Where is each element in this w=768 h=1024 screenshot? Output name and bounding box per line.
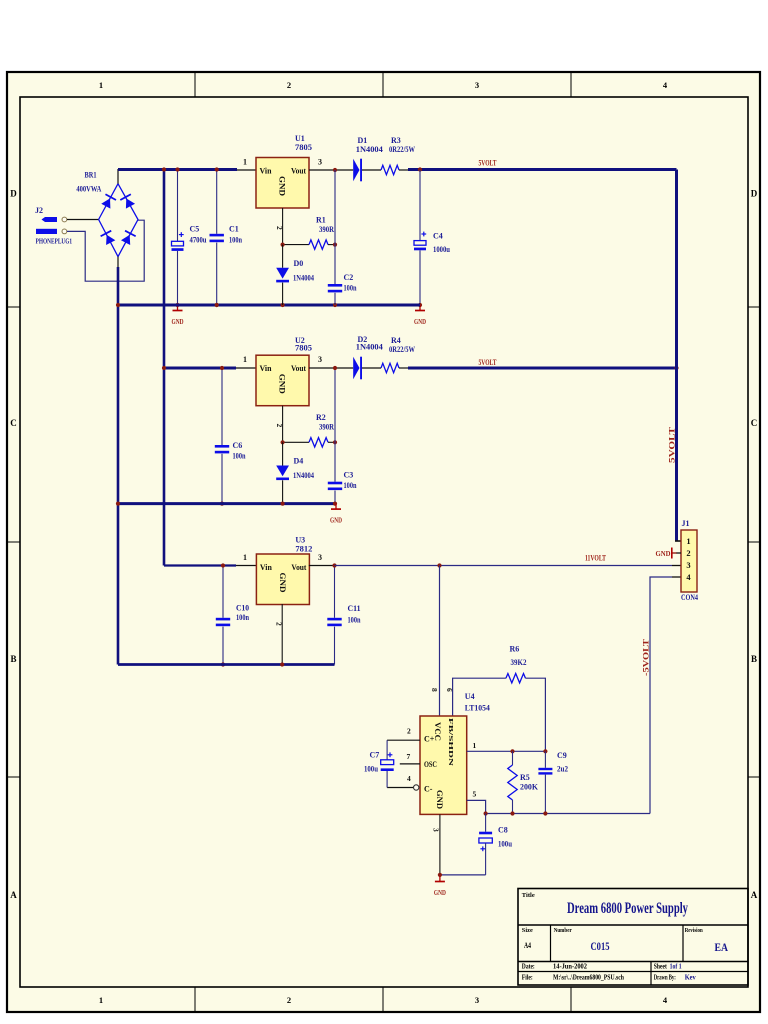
- svg-text:C015: C015: [591, 941, 610, 953]
- wire 11VOLT output: [335, 565, 673, 567]
- capacitor C7 100u: [386, 740, 388, 760]
- wire ground rail stage 2: [118, 502, 337, 505]
- ground symbol stage 2: [335, 504, 337, 509]
- wire U4 pin 6 to R6: [453, 678, 506, 716]
- svg-text:C4: C4: [433, 232, 443, 241]
- svg-text:C: C: [751, 418, 758, 428]
- svg-text:Sheet: Sheet: [654, 964, 668, 971]
- svg-text:C1: C1: [229, 225, 239, 234]
- svg-text:Vin: Vin: [260, 563, 273, 572]
- U2 pin 3 wire: [309, 367, 353, 369]
- ground symbol at C5: [177, 305, 179, 310]
- svg-text:C: C: [10, 418, 17, 428]
- title block frame: [518, 889, 748, 986]
- svg-text:Revision: Revision: [685, 927, 703, 934]
- svg-text:39K2: 39K2: [511, 658, 527, 667]
- svg-text:VCC: VCC: [433, 722, 442, 741]
- svg-text:Number: Number: [554, 927, 572, 934]
- svg-text:C5: C5: [190, 225, 200, 234]
- capacitor C3: [334, 368, 336, 482]
- svg-text:100u: 100u: [364, 765, 378, 774]
- svg-text:2: 2: [275, 622, 284, 626]
- capacitor C5: [177, 170, 179, 242]
- svg-text:Drawn By:: Drawn By:: [654, 975, 676, 982]
- svg-text:200K: 200K: [520, 783, 539, 792]
- svg-text:100n: 100n: [236, 613, 249, 622]
- svg-text:Vout: Vout: [291, 364, 306, 373]
- svg-text:7812: 7812: [295, 545, 312, 554]
- svg-text:11VOLT: 11VOLT: [585, 554, 606, 563]
- wire U4 ground link: [440, 874, 486, 876]
- bridge rectifier BR1 diamond: [99, 184, 138, 257]
- wire J2 sleeve loop: [67, 220, 144, 281]
- capacitor C8 100u: [485, 814, 487, 832]
- svg-text:GND: GND: [435, 790, 444, 809]
- svg-text:1of 1: 1of 1: [670, 964, 682, 971]
- svg-text:R3: R3: [391, 136, 401, 145]
- capacitor C9 2u2: [544, 751, 546, 768]
- svg-text:390R: 390R: [319, 423, 334, 432]
- svg-text:R1: R1: [316, 216, 326, 225]
- svg-text:1: 1: [686, 536, 690, 546]
- svg-text:C8: C8: [498, 826, 508, 835]
- svg-text:D0: D0: [294, 259, 304, 268]
- svg-text:100n: 100n: [344, 481, 357, 490]
- U4 pin 2 wire: [387, 739, 420, 741]
- svg-text:D4: D4: [294, 457, 304, 466]
- svg-text:R4: R4: [391, 336, 401, 345]
- svg-text:1N4004: 1N4004: [356, 145, 383, 154]
- svg-text:1: 1: [243, 553, 247, 562]
- svg-text:7805: 7805: [295, 344, 312, 353]
- U3 pin 2 wire: [281, 604, 283, 665]
- svg-text:U3: U3: [295, 536, 305, 545]
- connector J2 PHONEPLUG1: [42, 217, 58, 222]
- svg-text:2: 2: [287, 995, 291, 1005]
- svg-text:8: 8: [430, 688, 439, 692]
- svg-text:File:: File:: [522, 975, 533, 982]
- wire bridge top stub: [117, 169, 119, 184]
- svg-text:OSC: OSC: [424, 760, 437, 769]
- U4 pin 3 wire: [439, 814, 441, 876]
- svg-text:B: B: [751, 654, 757, 664]
- J1 pin 2 stub: [672, 552, 677, 554]
- svg-text:Vout: Vout: [291, 167, 306, 176]
- svg-text:2: 2: [686, 548, 690, 558]
- svg-text:R5: R5: [520, 773, 530, 782]
- svg-text:C2: C2: [344, 273, 354, 282]
- svg-text:7805: 7805: [295, 143, 312, 152]
- svg-text:GND: GND: [414, 317, 426, 326]
- wire raw DC feed to U2: [164, 367, 236, 370]
- svg-text:7: 7: [407, 752, 411, 761]
- svg-text:Kev: Kev: [685, 975, 697, 982]
- svg-text:U4: U4: [465, 692, 475, 701]
- svg-text:Title: Title: [522, 892, 535, 899]
- svg-text:EA: EA: [715, 940, 729, 954]
- wire ground rail stage 3: [118, 663, 335, 666]
- svg-text:GND: GND: [278, 374, 287, 394]
- svg-text:3: 3: [318, 553, 322, 562]
- svg-text:100n: 100n: [229, 236, 242, 245]
- svg-text:5VOLT: 5VOLT: [668, 426, 677, 463]
- svg-text:6: 6: [445, 688, 454, 692]
- svg-text:100n: 100n: [344, 284, 357, 293]
- svg-text:D: D: [10, 189, 17, 199]
- svg-text:14-Jun-2002: 14-Jun-2002: [553, 964, 588, 971]
- wire 5VOLT rail stage 2: [408, 367, 677, 370]
- svg-text:CON4: CON4: [681, 593, 698, 602]
- U4 pin 1 wire: [467, 750, 546, 752]
- svg-text:J1: J1: [682, 519, 690, 528]
- svg-text:GND: GND: [172, 317, 184, 326]
- svg-text:400VWA: 400VWA: [76, 185, 101, 194]
- wire 5VOLT rail: [408, 168, 677, 171]
- svg-text:100n: 100n: [348, 616, 361, 625]
- svg-text:4700u: 4700u: [190, 236, 207, 245]
- U3 pin 3 wire: [309, 565, 335, 567]
- svg-text:J2: J2: [35, 206, 43, 215]
- svg-text:GND: GND: [278, 573, 287, 593]
- border ticks: [194, 72, 196, 97]
- svg-text:1: 1: [99, 995, 103, 1005]
- svg-text:390R: 390R: [319, 225, 334, 234]
- svg-text:5: 5: [473, 790, 477, 799]
- svg-text:GND: GND: [330, 516, 342, 525]
- svg-text:1: 1: [99, 80, 103, 90]
- capacitor C11: [334, 566, 336, 618]
- svg-text:100u: 100u: [498, 840, 512, 849]
- wire raw DC vertical feed: [163, 170, 166, 566]
- svg-text:C7: C7: [370, 751, 380, 760]
- U4 pin 7 wire: [400, 763, 420, 765]
- wire Vout rail of U4: [486, 813, 650, 815]
- capacitor C6: [221, 368, 223, 445]
- svg-text:3: 3: [686, 560, 690, 570]
- svg-text:U1: U1: [295, 134, 305, 143]
- wire J2 tip to bridge: [67, 219, 99, 221]
- U4 pin 5 wire: [467, 800, 486, 813]
- svg-text:LT1054: LT1054: [465, 704, 490, 713]
- U1 pin 2 wire: [282, 208, 284, 245]
- svg-text:FB/SHDN: FB/SHDN: [447, 718, 454, 766]
- wire bridge bottom stub: [117, 257, 119, 268]
- svg-text:100n: 100n: [233, 452, 246, 461]
- U2 pin 2 wire: [282, 406, 284, 443]
- svg-text:Vin: Vin: [260, 167, 273, 176]
- svg-text:A: A: [10, 890, 17, 900]
- svg-text:D1: D1: [358, 136, 368, 145]
- svg-text:0R22/5W: 0R22/5W: [389, 145, 415, 154]
- svg-text:5VOLT: 5VOLT: [479, 358, 497, 367]
- svg-text:3: 3: [432, 828, 441, 832]
- svg-text:2u2: 2u2: [557, 765, 568, 774]
- svg-text:1000u: 1000u: [433, 245, 450, 254]
- svg-text:1N4004: 1N4004: [356, 343, 383, 352]
- junction C4: [418, 167, 422, 171]
- wire -5VOLT: [650, 577, 672, 814]
- svg-text:2: 2: [287, 80, 291, 90]
- svg-text:4: 4: [407, 774, 411, 783]
- bridge diode top-right: [120, 193, 136, 209]
- wire U4 VCC feed pin 8: [439, 566, 441, 717]
- svg-text:2: 2: [275, 226, 284, 230]
- wire 5VOLT vertical: [675, 170, 678, 542]
- svg-text:M:\sr\..\Dream6800_PSU.sch: M:\sr\..\Dream6800_PSU.sch: [553, 975, 624, 982]
- U1 pin 3 wire: [309, 169, 353, 171]
- svg-text:1N4004: 1N4004: [293, 273, 314, 282]
- svg-text:0R22/5W: 0R22/5W: [389, 345, 415, 354]
- svg-text:C6: C6: [233, 441, 243, 450]
- U4 pin 4 wire: [387, 787, 413, 789]
- svg-text:GND: GND: [434, 888, 446, 897]
- junction U4 supply tap: [437, 563, 441, 567]
- svg-text:2: 2: [407, 727, 411, 736]
- svg-text:1: 1: [243, 355, 247, 364]
- wire raw DC top rail: [118, 168, 237, 171]
- svg-text:Dream 6800 Power Supply: Dream 6800 Power Supply: [567, 900, 688, 917]
- svg-text:1: 1: [243, 158, 247, 167]
- capacitor C4 1000u: [419, 170, 421, 241]
- svg-text:GND: GND: [656, 549, 671, 558]
- svg-text:B: B: [10, 654, 16, 664]
- svg-text:1N4004: 1N4004: [293, 471, 314, 480]
- svg-text:D: D: [751, 189, 758, 199]
- bridge diode top-left: [101, 193, 117, 209]
- wire D2 to R4: [362, 367, 381, 369]
- wire ground spine: [117, 267, 120, 665]
- wire stub to U1 pin 1: [237, 169, 256, 171]
- svg-text:C-: C-: [424, 785, 433, 794]
- svg-text:Date:: Date:: [522, 964, 535, 971]
- svg-text:2: 2: [275, 424, 284, 428]
- svg-text:A: A: [751, 890, 758, 900]
- svg-text:3: 3: [475, 995, 479, 1005]
- svg-text:Vout: Vout: [291, 563, 306, 572]
- junction raw rail: [162, 167, 166, 171]
- svg-text:-5VOLT: -5VOLT: [642, 638, 651, 676]
- svg-text:BR1: BR1: [85, 171, 97, 180]
- capacitor C2: [333, 168, 337, 172]
- svg-text:C11: C11: [348, 604, 361, 613]
- wire raw DC feed to U3: [164, 564, 236, 566]
- bridge diode bottom-left: [100, 230, 116, 245]
- wire ground rail stage 1: [118, 304, 420, 307]
- capacitor C1: [216, 170, 218, 234]
- ground symbol at C4: [419, 305, 421, 310]
- wire R6 to FB node: [526, 678, 546, 751]
- ground symbol at U4: [439, 876, 441, 881]
- svg-text:3: 3: [475, 80, 479, 90]
- svg-text:3: 3: [318, 158, 322, 167]
- svg-text:5VOLT: 5VOLT: [479, 159, 497, 168]
- svg-text:C3: C3: [344, 471, 354, 480]
- svg-text:GND: GND: [278, 176, 287, 196]
- svg-text:1: 1: [473, 741, 477, 750]
- junction C5 ground: [175, 303, 179, 307]
- svg-text:R2: R2: [316, 413, 326, 422]
- capacitor C10: [222, 566, 224, 618]
- svg-text:PHONEPLUG1: PHONEPLUG1: [36, 237, 73, 246]
- svg-text:Size: Size: [522, 927, 533, 934]
- bridge diode bottom-right: [120, 230, 136, 245]
- svg-text:C10: C10: [236, 604, 249, 613]
- svg-text:R6: R6: [510, 645, 520, 654]
- wire D1 to R3: [362, 169, 381, 171]
- svg-text:3: 3: [318, 355, 322, 364]
- svg-text:C9: C9: [557, 751, 567, 760]
- svg-text:A4: A4: [524, 941, 531, 950]
- junction C4 ground: [418, 303, 422, 307]
- svg-text:Vin: Vin: [260, 364, 273, 373]
